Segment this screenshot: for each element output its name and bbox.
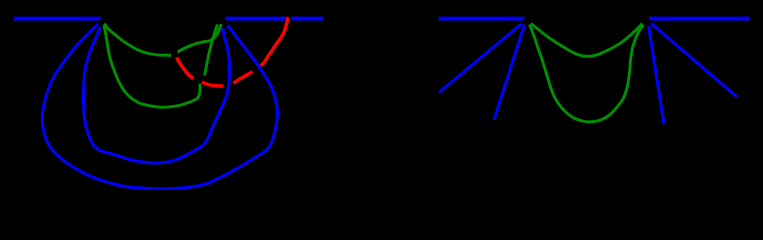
wire red dashed arc segment E side bbox=[261, 17, 288, 66]
wire blue ray D short bbox=[649, 26, 665, 124]
wire inner blue loop A-B bbox=[84, 27, 230, 163]
wire blue ray C short bbox=[494, 25, 525, 121]
wire boundary-line left segment 3 bbox=[291, 17, 323, 21]
wire boundary-line left segment 1 bbox=[14, 17, 101, 21]
wire green deep arc C-D bbox=[530, 25, 644, 122]
wire boundary-line left segment 2 bbox=[225, 17, 286, 21]
wire green shallow arc A-F bbox=[105, 24, 172, 56]
wire green shallow arc C-D bbox=[531, 24, 643, 57]
wire blue ray C long bbox=[439, 24, 522, 93]
wire red dashed arc segment 2 bbox=[202, 82, 224, 86]
wire red dashed arc segment 3 bbox=[234, 72, 253, 83]
wire outer blue loop A-B bbox=[42, 24, 277, 189]
wire red dashed arc segment F side bbox=[177, 58, 194, 79]
wire blue ray D long bbox=[651, 23, 737, 97]
wire boundary-line right segment 2 bbox=[649, 17, 749, 21]
wire green deep arc A-B lower part bbox=[104, 25, 200, 107]
wire green deep arc A-B upper part bbox=[205, 25, 218, 76]
wire green shallow arc F-B bbox=[178, 24, 222, 52]
wire boundary-line right segment 1 bbox=[439, 17, 525, 21]
